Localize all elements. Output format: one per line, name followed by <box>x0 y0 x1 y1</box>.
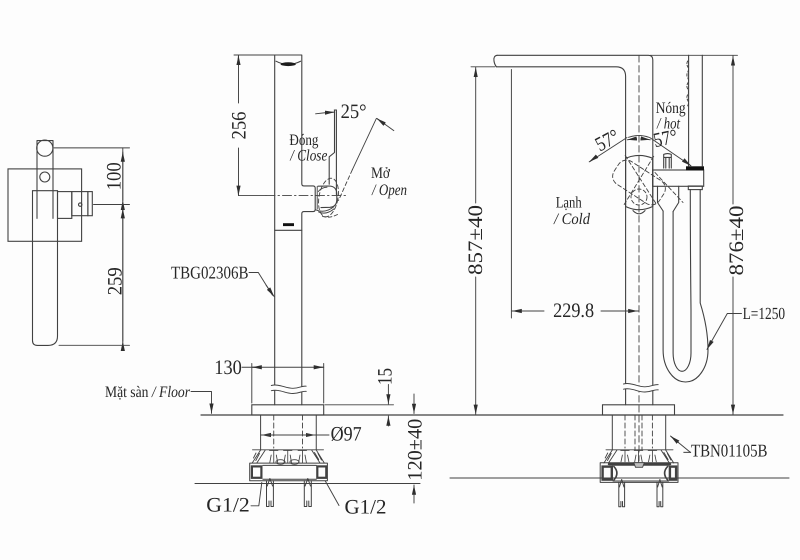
right bracket <box>600 463 678 483</box>
dim 857pm40 <box>471 66 495 68</box>
leader TBN <box>671 437 690 453</box>
underfloor right body <box>612 415 665 450</box>
break mark <box>271 388 306 391</box>
underfloor mid hidden <box>274 415 303 448</box>
cartridge dashed circle <box>631 189 647 205</box>
joint line <box>275 229 302 231</box>
pivot strip <box>37 141 53 219</box>
svg-text:Lạnh: Lạnh <box>556 194 582 211</box>
svg-text:Đóng: Đóng <box>289 132 318 149</box>
hose loop outer <box>663 190 708 382</box>
knob cross dashed <box>624 155 683 204</box>
angle 57 left leg <box>590 138 627 162</box>
pivot inner edge <box>316 187 318 209</box>
right bracket top band <box>609 463 670 465</box>
svg-text:256: 256 <box>229 112 251 140</box>
knuckle inner arc <box>318 187 327 191</box>
right bracket hole L <box>603 467 612 480</box>
leader G12 right <box>325 481 339 506</box>
bottom line right <box>450 477 789 479</box>
centerline <box>239 195 267 197</box>
handle bar <box>33 191 58 346</box>
column body <box>275 55 316 405</box>
svg-text:Mở: Mở <box>371 165 390 182</box>
svg-text:Mặt sàn / Floor: Mặt sàn / Floor <box>105 384 191 401</box>
pivot knuckle <box>318 186 337 208</box>
svg-text:–TBN01105B: –TBN01105B <box>683 441 768 461</box>
open lever dash bits <box>321 215 338 218</box>
base plate right <box>603 405 675 415</box>
open arrow leader <box>377 119 394 131</box>
lever closed <box>329 110 336 195</box>
dim 15 <box>387 385 389 405</box>
screw hole <box>40 172 50 182</box>
svg-text:259: 259 <box>105 267 127 295</box>
mid pipe L <box>267 479 274 507</box>
right pipe L <box>619 480 625 507</box>
mid flange struts <box>270 450 307 462</box>
leader L1250 <box>708 314 742 349</box>
svg-text:Nóng: Nóng <box>656 100 686 117</box>
svg-text:TBG02306B: TBG02306B <box>171 263 249 283</box>
dim 120pm40 mid <box>413 394 415 414</box>
diverter knob <box>664 154 672 169</box>
svg-text:Ø97: Ø97 <box>331 424 362 446</box>
dim 130 <box>252 364 324 404</box>
leader G12 left <box>251 483 262 506</box>
angle 25 <box>316 112 335 114</box>
holder cap black <box>686 166 704 170</box>
right flange struts <box>621 450 657 461</box>
svg-text:25°: 25° <box>341 101 367 123</box>
mid bracket <box>250 463 328 481</box>
connector block <box>58 192 72 219</box>
outlet slot <box>283 223 294 226</box>
svg-text:857±40: 857±40 <box>465 205 487 275</box>
dim O97 <box>261 434 268 436</box>
svg-text:/ Close: / Close <box>289 147 327 164</box>
valve cap <box>88 192 92 216</box>
svg-text:/ Open: / Open <box>371 182 407 199</box>
hose bead <box>687 61 689 106</box>
hose outlet block <box>658 186 679 211</box>
svg-text:/ Cold: / Cold <box>553 211 591 228</box>
svg-text:229.8: 229.8 <box>553 300 594 322</box>
dim 256 <box>238 59 240 191</box>
center axis dashed <box>638 56 640 461</box>
mid nuts <box>276 460 285 465</box>
dim 229.8 <box>510 70 512 319</box>
floor label leader <box>191 392 212 414</box>
mid bracket hole L <box>252 466 262 477</box>
svg-text:L=1250: L=1250 <box>743 304 786 323</box>
handle nut <box>688 186 702 190</box>
hose loop inner <box>673 190 691 372</box>
back plate <box>8 169 82 241</box>
svg-text:120±40: 120±40 <box>405 419 427 481</box>
open knob dashed <box>609 156 669 208</box>
cap seam <box>276 61 301 64</box>
valve knob <box>626 155 653 213</box>
dim 100-259 line <box>122 148 124 345</box>
right flange <box>604 450 674 463</box>
break mark right <box>624 386 659 389</box>
svg-text:57°: 57° <box>592 126 624 157</box>
spout and column <box>497 55 653 405</box>
right bracket arcs <box>614 467 668 481</box>
cap lens <box>281 62 296 66</box>
angle 57 arcs <box>629 135 650 137</box>
svg-text:G1/2: G1/2 <box>206 495 250 517</box>
valve square <box>72 192 88 216</box>
right pipe R <box>657 480 663 507</box>
right center nut <box>634 463 645 468</box>
mid flange <box>252 450 324 463</box>
underfloor mid body <box>261 415 317 450</box>
svg-text:15: 15 <box>375 368 397 385</box>
leader TBG <box>249 273 273 296</box>
right bracket hole R <box>670 467 676 480</box>
shower head <box>689 55 703 166</box>
spout tip <box>494 55 497 67</box>
bottom line mid <box>195 483 420 485</box>
underfloor right hidden <box>625 415 652 450</box>
floor line <box>201 414 783 416</box>
mid pipe R <box>304 479 311 507</box>
set screw dot <box>79 203 82 206</box>
dim 876pm40 <box>650 54 738 56</box>
svg-text:G1/2: G1/2 <box>345 496 387 518</box>
open lever ellipse <box>316 177 341 219</box>
top ring <box>37 140 53 156</box>
base plate <box>252 405 324 415</box>
shower holder bar <box>653 170 704 186</box>
open lever dashed <box>339 170 353 201</box>
open lever solid part <box>352 119 376 170</box>
ext lines left view <box>54 148 130 345</box>
angle 57 right leg <box>650 138 691 166</box>
svg-text:130: 130 <box>214 357 242 379</box>
svg-text:876±40: 876±40 <box>726 206 748 276</box>
svg-text:/ hot: / hot <box>656 115 680 132</box>
knuckle collar arcs <box>316 207 334 213</box>
svg-text:100: 100 <box>104 162 126 190</box>
mid bracket hole R <box>317 466 326 477</box>
